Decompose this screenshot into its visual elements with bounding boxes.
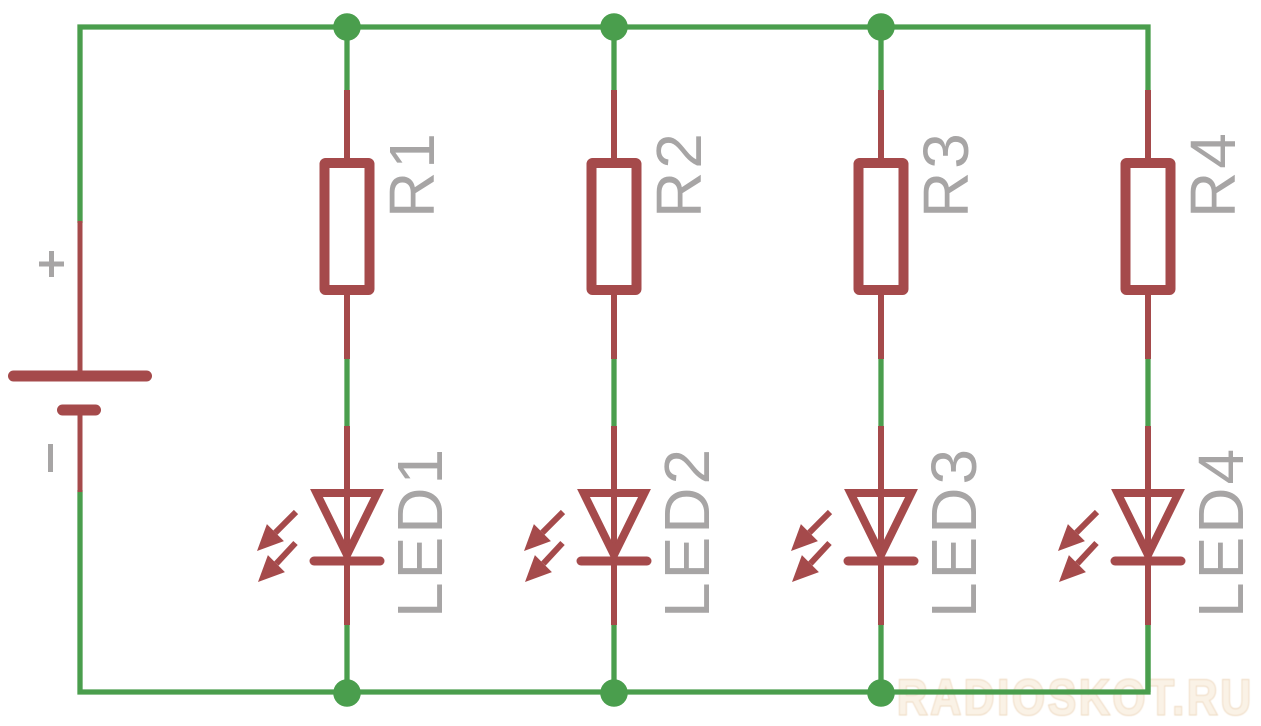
svg-text:LED1: LED1 (384, 446, 456, 618)
svg-text:R3: R3 (910, 130, 982, 218)
svg-text:R4: R4 (1177, 130, 1249, 218)
svg-text:LED2: LED2 (651, 446, 723, 618)
svg-text:R2: R2 (643, 130, 715, 218)
svg-text:LED4: LED4 (1185, 446, 1257, 618)
svg-text:LED3: LED3 (918, 446, 990, 618)
svg-text:R1: R1 (376, 130, 448, 218)
svg-text:RADIOSKOT.RU: RADIOSKOT.RU (897, 669, 1254, 725)
